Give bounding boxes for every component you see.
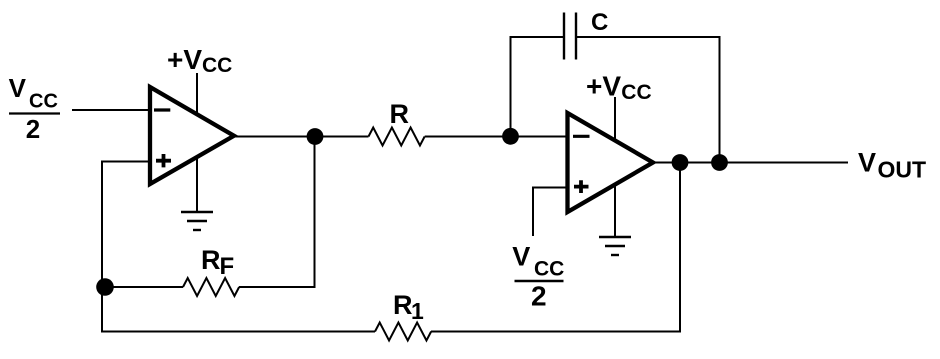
svg-text:1: 1 <box>411 298 424 324</box>
svg-text:R: R <box>390 99 410 129</box>
svg-text:C: C <box>591 9 608 36</box>
svg-text:CC: CC <box>202 54 232 77</box>
svg-text:CC: CC <box>29 91 58 113</box>
svg-text:+V: +V <box>167 44 202 75</box>
svg-text:F: F <box>220 253 235 280</box>
svg-text:CC: CC <box>534 257 564 280</box>
svg-text:OUT: OUT <box>878 156 927 182</box>
svg-text:V: V <box>9 73 27 103</box>
svg-text:R: R <box>393 290 413 320</box>
svg-text:2: 2 <box>26 114 40 144</box>
svg-text:+V: +V <box>586 70 621 101</box>
svg-text:V: V <box>858 147 876 177</box>
svg-text:CC: CC <box>621 81 651 104</box>
svg-text:R: R <box>201 245 221 275</box>
svg-text:2: 2 <box>531 280 547 311</box>
svg-text:V: V <box>512 242 530 272</box>
